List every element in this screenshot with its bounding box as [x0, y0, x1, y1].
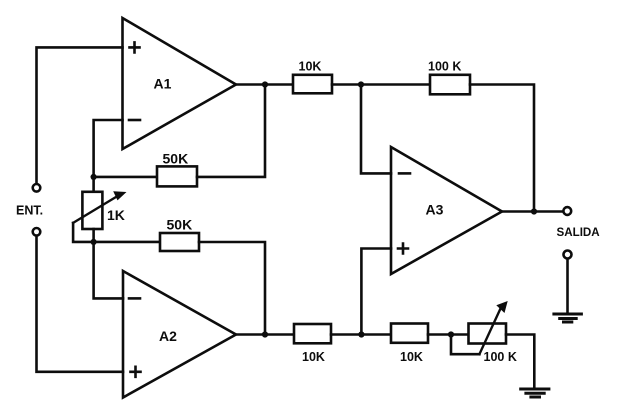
svg-text:SALIDA: SALIDA — [557, 226, 601, 239]
wire ENT- to A2 noninverting input — [37, 236, 124, 372]
wire 100K to ground — [506, 335, 534, 389]
node junction A1 feedback — [91, 174, 97, 180]
ground reference terminal — [564, 251, 572, 259]
svg-text:10K: 10K — [299, 60, 322, 74]
wire ENT+ to A1 noninverting input — [37, 47, 123, 183]
svg-text:A2: A2 — [159, 328, 177, 344]
node junction A1 output — [262, 81, 268, 87]
wire 10K bottom-right to potentiometer 100K — [428, 333, 469, 336]
node junction A3 output — [531, 208, 537, 214]
ground lower-right — [521, 389, 549, 397]
resistor 50K lower feedback — [160, 233, 199, 251]
potentiometer 100K body — [469, 324, 507, 344]
potentiometer 100K arrow — [479, 301, 507, 354]
input terminal ENT - — [33, 228, 41, 236]
svg-text:100 K: 100 K — [484, 350, 517, 364]
wire A2 output to resistor 10K bottom-left — [236, 333, 294, 336]
node junction A3 noninverting branch — [358, 331, 364, 337]
wire A1 inverting input — [94, 120, 123, 192]
wire 1K bottom through node down to A2 inverting input — [94, 229, 123, 298]
wire 100K top to A3 output — [470, 85, 534, 212]
output terminal SALIDA — [563, 207, 571, 215]
potentiometer 1K arrow — [73, 191, 126, 223]
resistor 10K bottom-left — [294, 324, 331, 343]
wire resistor 50K lower to A2 output — [199, 242, 265, 335]
resistor 100K top — [430, 75, 470, 95]
svg-text:A3: A3 — [426, 202, 444, 218]
svg-text:10K: 10K — [302, 350, 325, 364]
node junction A2 output — [262, 331, 268, 337]
svg-text:100 K: 100 K — [428, 60, 461, 74]
svg-text:1K: 1K — [107, 207, 125, 223]
svg-text:A1: A1 — [154, 76, 172, 92]
resistor 10K bottom-right — [391, 324, 428, 343]
node junction 1K bottom — [91, 239, 97, 245]
wire node up to A3 noninverting input — [361, 249, 391, 335]
wire node to resistor 50K lower — [94, 241, 160, 244]
op-amp A2 — [123, 271, 236, 398]
wire node down to A3 inverting input — [361, 85, 391, 174]
svg-text:50K: 50K — [163, 151, 189, 167]
wire node to resistor 50K upper — [94, 176, 157, 179]
wire A3 output to SALIDA — [502, 210, 563, 213]
potentiometer 1K body — [82, 192, 102, 229]
wire 1K wiper to lower node — [73, 223, 94, 242]
svg-text:ENT.: ENT. — [16, 204, 43, 218]
wire A1 output to resistor 10K top — [236, 83, 293, 86]
svg-text:10K: 10K — [400, 350, 423, 364]
wire 10K bottom-left to 10K bottom-right — [331, 333, 391, 336]
wire resistor 50K upper to A1 output — [197, 85, 265, 177]
resistor 10K top — [293, 75, 332, 94]
input terminal ENT + — [33, 184, 41, 192]
node junction A3 inverting branch — [358, 81, 364, 87]
ground under SALIDA — [554, 314, 582, 322]
node junction 100K wiper — [448, 331, 454, 337]
wire 10K top to 100K top — [332, 83, 430, 86]
wire terminal to ground — [566, 260, 569, 314]
wire 100K wiper hook — [451, 335, 479, 355]
resistor 50K upper feedback — [157, 166, 197, 186]
svg-text:50K: 50K — [167, 217, 193, 233]
op-amp A3 — [391, 147, 502, 274]
op-amp A1 — [123, 18, 237, 149]
